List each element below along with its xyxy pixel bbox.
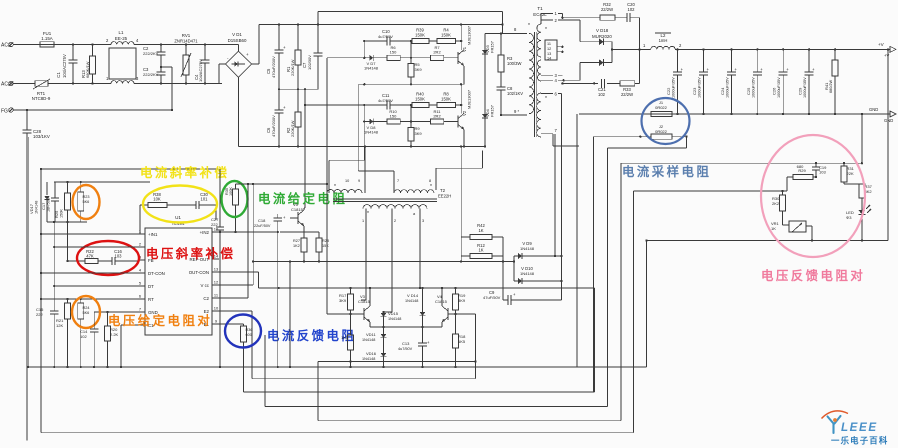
svg-text:V cc: V cc	[200, 283, 209, 288]
transistor V1 MJE13007	[458, 24, 472, 85]
wire snubber bottom	[561, 82, 639, 84]
svg-text:DT-CON: DT-CON	[148, 271, 165, 276]
svg-text:22/2W: 22/2W	[621, 92, 633, 97]
svg-text:150K: 150K	[415, 33, 425, 38]
svg-text:C25: C25	[746, 87, 751, 95]
wire left bias lower	[47, 221, 87, 223]
wire pin11 right	[212, 183, 249, 298]
resistor R1	[286, 25, 301, 91]
svg-text:C1815: C1815	[291, 207, 304, 212]
svg-text:4u7/50V: 4u7/50V	[378, 98, 393, 103]
svg-text:220K/1W: 220K/1W	[290, 59, 295, 76]
wire bottom return rail	[238, 145, 485, 147]
diode VD9	[503, 241, 563, 262]
svg-text:1N4148: 1N4148	[35, 201, 39, 214]
resistor R31	[841, 163, 862, 184]
transistor V3 C1815	[351, 287, 372, 327]
wire +310V rail	[259, 23, 503, 25]
svg-text:电流斜率补偿: 电流斜率补偿	[140, 165, 229, 180]
resistor R8	[429, 92, 462, 108]
wire main ground bus	[27, 366, 647, 368]
capacitor C27	[211, 169, 224, 233]
svg-text:104/AC275V: 104/AC275V	[198, 59, 203, 82]
svg-text:1K: 1K	[771, 226, 776, 231]
wire V1 emitter return	[358, 83, 464, 85]
capacitor C7	[302, 25, 323, 90]
svg-text:U1: U1	[175, 215, 181, 220]
svg-text:2.2K: 2.2K	[110, 332, 119, 337]
LED indicator	[846, 205, 871, 241]
resistor R29	[787, 168, 816, 180]
svg-text:DT: DT	[148, 284, 154, 289]
svg-text:10: 10	[214, 306, 219, 311]
wire top link rail	[318, 11, 504, 25]
annotation circle J1 J2 blue	[642, 98, 690, 144]
svg-text:680/2W: 680/2W	[829, 79, 833, 93]
thermistor RT1	[32, 79, 104, 101]
wire pink to nest	[633, 191, 782, 433]
svg-text:1000uF/35V: 1000uF/35V	[751, 77, 755, 98]
wire mid rail	[279, 88, 318, 90]
svg-text:VD16: VD16	[366, 351, 377, 356]
capacitor C9	[483, 262, 562, 306]
svg-text:C18: C18	[258, 218, 266, 223]
T2 primary winding	[363, 205, 427, 217]
svg-text:10K: 10K	[153, 197, 161, 202]
svg-text:102: 102	[628, 7, 636, 12]
svg-text:7: 7	[397, 179, 399, 183]
wire C2C3 midpoint to FG	[161, 67, 173, 111]
diode VD7	[364, 55, 387, 71]
T1 pin 7	[541, 128, 579, 146]
T2 core	[333, 199, 437, 202]
resistor R7	[430, 45, 458, 60]
svg-text:12: 12	[214, 280, 219, 285]
current sense resistor J2	[594, 124, 688, 139]
svg-text:100/3W: 100/3W	[507, 61, 521, 66]
svg-text:2K2: 2K2	[772, 201, 780, 206]
svg-text:EC42L: EC42L	[533, 12, 547, 17]
svg-text:MJE13007: MJE13007	[467, 89, 472, 109]
annotation circle R23 orange	[73, 185, 100, 219]
terminal GND output	[884, 111, 896, 123]
svg-text:+V: +V	[884, 53, 889, 58]
svg-text:L1: L1	[119, 30, 124, 35]
svg-text:4u7/50V: 4u7/50V	[378, 34, 393, 39]
svg-text:150: 150	[390, 50, 397, 55]
svg-text:EE22H: EE22H	[438, 194, 451, 199]
svg-text:102/30V: 102/30V	[307, 55, 312, 70]
resistor R19	[453, 288, 467, 315]
U1 pin 10 E2	[204, 306, 219, 314]
svg-text:12K: 12K	[56, 323, 63, 328]
svg-text:1N4148: 1N4148	[388, 317, 401, 321]
svg-text:1K5: 1K5	[458, 339, 466, 344]
T1 pin 1	[541, 11, 562, 24]
wire V2 emitter drop	[364, 147, 366, 194]
resistor R41	[824, 48, 838, 115]
capacitor C29	[798, 48, 816, 115]
svg-text:R27: R27	[293, 239, 300, 243]
svg-text:C1: C1	[56, 72, 61, 78]
wire C27 ground	[219, 232, 221, 368]
svg-text:电流采样电阻: 电流采样电阻	[622, 164, 711, 179]
wire pin12 right	[212, 183, 254, 285]
U1 pin 13 OUT-CON	[189, 267, 219, 275]
svg-text:C13: C13	[402, 341, 410, 346]
capacitor C5	[266, 25, 286, 91]
wire nest W1	[252, 311, 476, 379]
transistor V2 MJE13007	[458, 84, 472, 146]
svg-text:3K9: 3K9	[339, 298, 347, 303]
svg-text:222/2KV: 222/2KV	[143, 51, 159, 56]
T2 upper winding A	[327, 179, 362, 193]
wire R42 R12 ends	[460, 145, 503, 261]
T2 pin down 2	[392, 209, 396, 312]
wire rectifier cathode node	[611, 42, 651, 63]
svg-text:电压给定电阻对: 电压给定电阻对	[108, 313, 212, 328]
diode VD18 upper	[562, 20, 612, 45]
inductor L1 common-mode choke	[104, 30, 226, 84]
diode VD4	[482, 62, 495, 148]
T1 pin 6	[541, 92, 562, 300]
svg-text:8: 8	[429, 179, 431, 183]
U1 pin 2 -IN1	[138, 242, 145, 248]
diode VD8	[364, 119, 387, 135]
wire left bias top	[40, 168, 220, 170]
svg-text:MJE13007: MJE13007	[467, 25, 472, 45]
wire left drop 2	[289, 262, 291, 369]
resistor R11	[430, 109, 458, 124]
svg-text:V2: V2	[462, 110, 467, 116]
U1 pin 9 E1	[204, 319, 219, 327]
svg-text:0R022: 0R022	[655, 129, 668, 134]
T2 pin down 3	[419, 209, 424, 290]
svg-text:220K/1W: 220K/1W	[290, 120, 295, 137]
varistor RV1	[174, 33, 198, 85]
capacitor C22	[666, 48, 684, 115]
feedback resistor R22	[67, 249, 112, 264]
U1 pin 14 REF-OUT	[189, 254, 219, 262]
wire snubber top	[561, 13, 639, 83]
svg-text:222: 222	[36, 312, 43, 317]
svg-text:2R2: 2R2	[433, 50, 441, 55]
inductor L2	[651, 33, 890, 49]
svg-text:14: 14	[547, 57, 551, 61]
svg-text:C1815: C1815	[435, 299, 448, 304]
transistor V4 C1815	[435, 287, 456, 327]
svg-text:1.15A: 1.15A	[41, 36, 53, 41]
svg-text:R23: R23	[83, 195, 90, 199]
svg-text:1N4148: 1N4148	[405, 299, 418, 303]
wire J2 right drop	[608, 137, 687, 148]
svg-text:*: *	[367, 211, 369, 217]
svg-text:R36: R36	[246, 328, 253, 332]
svg-text:470uF/200V: 470uF/200V	[271, 56, 276, 78]
svg-text:C22: C22	[666, 87, 671, 95]
annotation ellipse feedback pink	[761, 135, 865, 257]
potentiometer VR1	[771, 221, 812, 241]
U1 pin 7 GND	[138, 307, 158, 315]
wire feedback top	[621, 114, 863, 164]
wire nest W4	[318, 163, 621, 421]
svg-text:5K6: 5K6	[83, 311, 90, 315]
resistor R27	[293, 238, 307, 263]
svg-text:103/1KV: 103/1KV	[33, 134, 50, 139]
wire pin16 right	[212, 231, 319, 233]
svg-text:470uF/200V: 470uF/200V	[271, 115, 276, 137]
wire T1 pin7 run	[554, 134, 556, 257]
resistor R4	[429, 28, 462, 44]
svg-text:LEEE: LEEE	[841, 421, 878, 434]
resistor R30	[772, 177, 787, 225]
svg-text:1N4148: 1N4148	[362, 338, 375, 342]
node VD8 junction	[329, 104, 369, 193]
op-amp U1 TL494 PWM controller	[145, 215, 212, 335]
svg-text:R25: R25	[54, 210, 59, 218]
svg-text:680: 680	[797, 164, 804, 169]
terminal FG	[1, 108, 172, 115]
capacitor C28	[23, 109, 50, 441]
svg-text:150: 150	[390, 114, 397, 119]
capacitor C20	[627, 2, 636, 22]
resistor R21	[56, 299, 70, 368]
wire x318 link	[318, 360, 477, 362]
annotation circle R36 blue	[225, 315, 261, 348]
svg-text:*: *	[545, 96, 547, 102]
diode VD10	[513, 260, 563, 284]
svg-text:V1: V1	[462, 46, 467, 52]
wire left loop x41	[40, 169, 42, 367]
terminal +V output	[878, 42, 896, 58]
capacitor C3	[143, 66, 166, 85]
svg-text:C1815: C1815	[358, 299, 371, 304]
T2 pin down 1	[361, 209, 366, 300]
svg-text:V D14: V D14	[407, 293, 419, 298]
wire left bias upper	[54, 181, 150, 183]
svg-text:150K: 150K	[415, 97, 425, 102]
T1 secondary winding lower	[537, 93, 547, 137]
svg-text:4u7/50V: 4u7/50V	[398, 347, 413, 351]
svg-text:AC/L: AC/L	[1, 43, 12, 49]
svg-text:11: 11	[547, 42, 551, 46]
svg-text:150K: 150K	[441, 33, 451, 38]
capacitor C19	[812, 163, 827, 178]
svg-text:+: +	[283, 45, 286, 50]
svg-text:C2: C2	[203, 296, 209, 301]
svg-text:1mH: 1mH	[659, 38, 668, 43]
wire nest link v4 base	[456, 313, 476, 315]
feedback resistor R36	[212, 324, 252, 392]
T1 secondary winding upper	[537, 24, 547, 57]
resistor R16	[341, 314, 354, 368]
diode VD14	[405, 288, 425, 343]
resistor R40	[412, 92, 429, 108]
svg-text:1uF/50V: 1uF/50V	[47, 197, 51, 212]
svg-text:RV1: RV1	[182, 33, 191, 38]
svg-text:1000uF/35V: 1000uF/35V	[698, 77, 702, 98]
svg-text:AC/N: AC/N	[1, 82, 13, 88]
terminal AC/L	[1, 42, 40, 48]
svg-text:22K: 22K	[847, 171, 854, 176]
wire x54 column	[53, 222, 55, 311]
svg-text:100K: 100K	[229, 187, 233, 196]
svg-text:1K5: 1K5	[341, 335, 349, 340]
wire feedback bottom	[647, 48, 890, 242]
svg-text:12: 12	[547, 47, 551, 51]
svg-text:FR157: FR157	[490, 40, 495, 53]
wire nest W2	[244, 137, 595, 392]
svg-text:+: +	[283, 105, 286, 110]
capacitor C1	[56, 43, 78, 84]
bridge rectifier VD1	[205, 32, 252, 84]
resistor R33	[620, 81, 635, 97]
diode VD16	[362, 351, 386, 368]
wire pin8	[120, 325, 138, 368]
svg-text:104/AC275V: 104/AC275V	[62, 54, 67, 78]
capacitor C4	[194, 43, 210, 84]
svg-text:一乐电子百科: 一乐电子百科	[831, 436, 888, 446]
svg-text:10: 10	[345, 179, 349, 183]
svg-text:+IN1: +IN1	[148, 232, 158, 237]
T1 pin 4	[541, 78, 565, 83]
wire GND rail left drop	[576, 114, 578, 367]
capacitor C13	[398, 340, 430, 368]
svg-text:3: 3	[422, 219, 424, 223]
svg-text:V D1: V D1	[232, 32, 242, 37]
svg-text:1N4148: 1N4148	[520, 246, 535, 251]
wire return to T2	[436, 150, 483, 190]
resistor R32	[600, 2, 615, 20]
capacitor C17	[41, 182, 59, 222]
resistor R18	[453, 314, 467, 368]
wire nest link v3 base	[327, 193, 351, 314]
svg-text:GND: GND	[869, 107, 878, 112]
svg-text:5K6: 5K6	[83, 200, 90, 204]
wire GND rail	[579, 107, 890, 115]
resistor R12	[461, 243, 503, 259]
resistor R25	[54, 182, 70, 222]
U1 pin 3 FB	[138, 255, 154, 263]
resistor R20	[105, 312, 119, 368]
logo YLEEE	[822, 411, 878, 434]
svg-text:MUR2020: MUR2020	[592, 34, 612, 39]
svg-text:电流给定电阻: 电流给定电阻	[258, 191, 347, 206]
svg-text:VD17: VD17	[29, 203, 34, 214]
svg-text:*: *	[528, 23, 530, 29]
svg-text:OUT-CON: OUT-CON	[189, 270, 209, 275]
capacitor C8	[497, 86, 524, 116]
U1 pin 16 +IN2	[200, 227, 219, 235]
U1 pin 12 V cc	[200, 280, 219, 288]
wire drive bus y184	[236, 183, 329, 185]
svg-text:101: 101	[201, 197, 209, 202]
annotation ellipse slope comp yellow	[143, 186, 217, 223]
diode VD18 lower	[564, 59, 612, 80]
svg-text:3K9: 3K9	[415, 67, 423, 72]
svg-text:1K: 1K	[478, 228, 483, 233]
wire pin10 drop	[212, 310, 252, 312]
wire pin4	[40, 272, 138, 274]
svg-text:Φ3: Φ3	[846, 215, 852, 220]
T1 pin 3	[541, 73, 562, 78]
svg-text:1000uF/35V: 1000uF/35V	[672, 77, 676, 98]
svg-text:2: 2	[394, 219, 396, 223]
resistor R35	[225, 184, 239, 233]
svg-text:150K: 150K	[441, 97, 451, 102]
capacitor C18	[254, 214, 286, 233]
svg-text:1: 1	[362, 219, 364, 223]
svg-text:电压反馈电阻对: 电压反馈电阻对	[761, 268, 865, 283]
svg-text:222: 222	[211, 222, 218, 227]
resistor R9	[408, 104, 422, 148]
slope comp resistor R38	[140, 192, 196, 234]
svg-text:T1: T1	[537, 6, 543, 11]
transformer T2 EE22H	[438, 188, 451, 199]
svg-text:222/2KV: 222/2KV	[143, 72, 159, 77]
svg-text:NTC8D-9: NTC8D-9	[32, 96, 51, 101]
wire VD7 drop	[326, 58, 328, 193]
svg-text:C23: C23	[692, 87, 697, 95]
wire emitter join	[370, 326, 442, 328]
resistor R42	[461, 223, 503, 240]
svg-text:150K: 150K	[60, 209, 64, 218]
U1 pin 1 +IN1	[138, 229, 158, 237]
T2 upper winding B	[394, 179, 434, 193]
svg-text:3K9: 3K9	[415, 131, 423, 136]
capacitor C15	[36, 286, 59, 368]
resistor R28	[316, 232, 329, 263]
svg-text:3K9: 3K9	[458, 298, 466, 303]
svg-text:FR157: FR157	[490, 104, 495, 117]
svg-text:+V: +V	[878, 42, 885, 47]
U1 pin 4 DT-CON	[138, 268, 165, 276]
svg-text:2R2: 2R2	[433, 114, 441, 119]
svg-text:*: *	[430, 184, 432, 190]
svg-text:102/1KV: 102/1KV	[507, 91, 523, 96]
U1 pin 8 C1	[138, 323, 154, 328]
wire bridge plus	[252, 25, 259, 65]
wire pin2	[54, 246, 138, 248]
resistor R3	[498, 32, 521, 87]
svg-text:680K/1W: 680K/1W	[85, 61, 90, 78]
wire nest W5	[41, 367, 633, 433]
svg-text:1N4148: 1N4148	[520, 271, 535, 276]
wire V5 collector feed	[304, 88, 365, 208]
svg-text:C29: C29	[798, 87, 803, 95]
svg-text:47uF/50V: 47uF/50V	[483, 295, 501, 300]
svg-text:D15SB60: D15SB60	[228, 38, 247, 43]
svg-text:R24: R24	[83, 306, 90, 310]
wire T1 pin8	[485, 11, 527, 33]
wire x67 column	[66, 222, 68, 262]
capacitor C6	[266, 89, 286, 147]
svg-text:102: 102	[598, 92, 606, 97]
svg-text:0R022: 0R022	[655, 105, 668, 110]
node VD7 junction	[327, 40, 369, 59]
wire pin1	[40, 233, 138, 235]
diode VD17	[29, 182, 50, 222]
wire pin7	[94, 311, 138, 313]
U1 pin 5 DT	[138, 281, 154, 289]
resistor R24	[78, 299, 90, 368]
slope comp capacitor C30	[196, 192, 216, 220]
svg-text:*: *	[545, 27, 547, 33]
capacitor C2	[143, 43, 166, 67]
capacitor C24	[720, 48, 738, 115]
resistor R23	[78, 182, 90, 222]
wire ground riser right	[645, 239, 647, 367]
